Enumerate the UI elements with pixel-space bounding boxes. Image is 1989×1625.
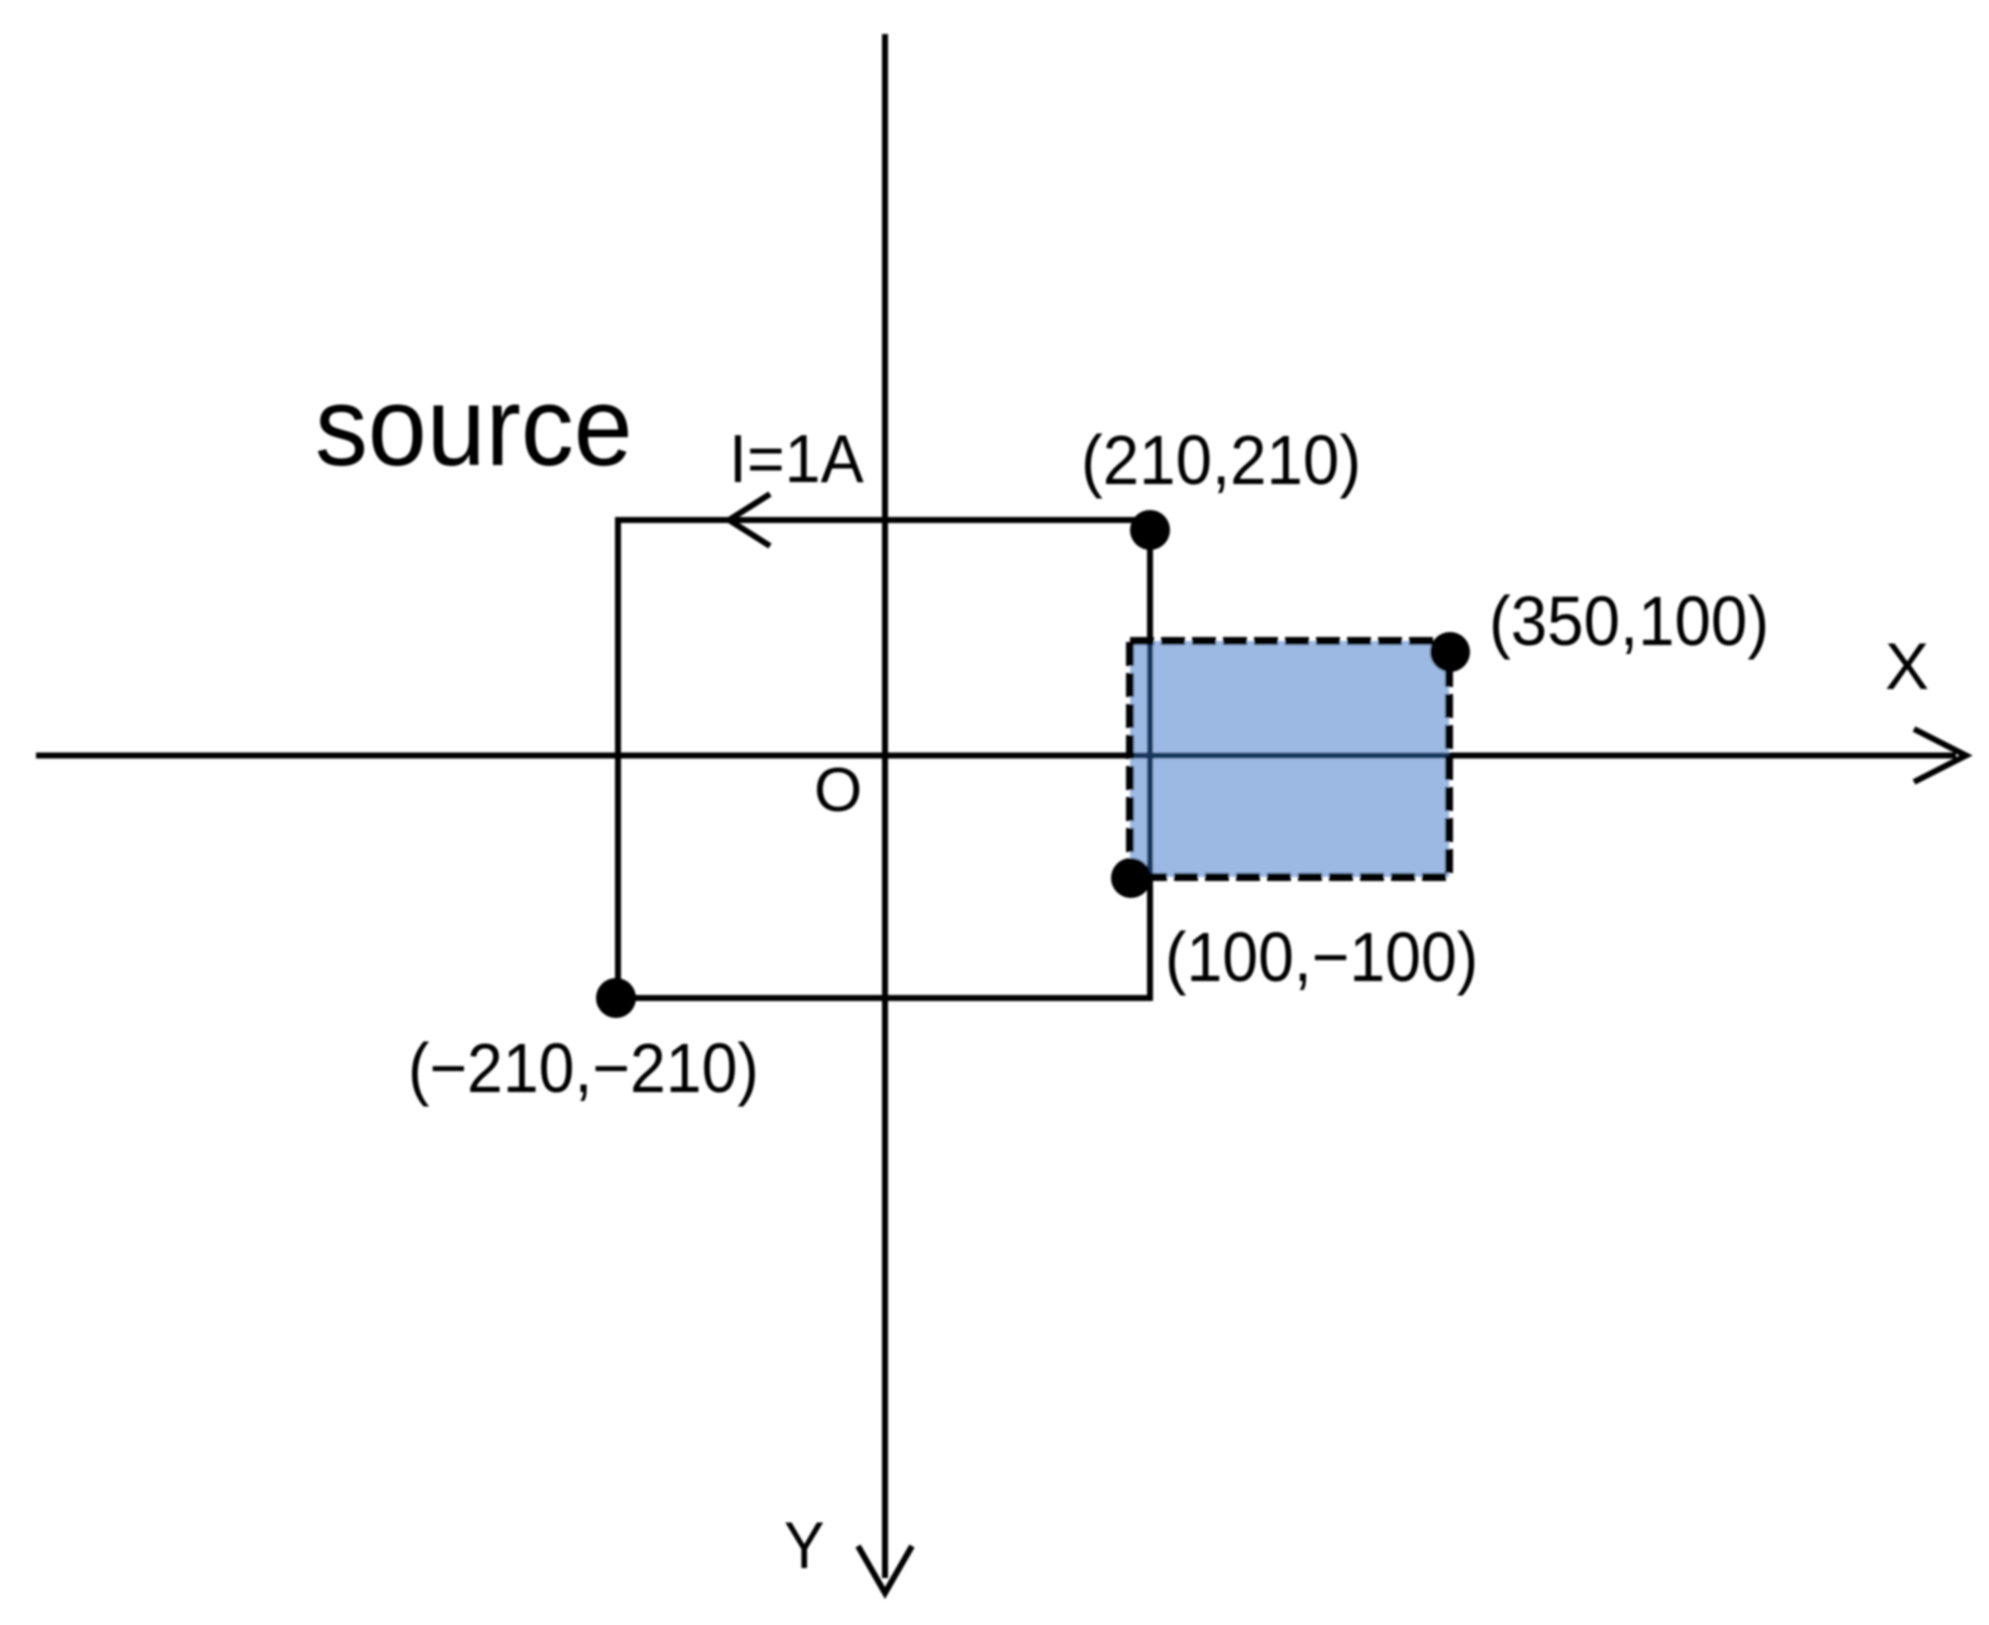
svg-text:I=1A: I=1A [729, 422, 864, 498]
loop right wire seen through blue fill (navy) [1147, 641, 1153, 877]
node dot (100,-100) [1111, 858, 1151, 898]
current direction arrow on top wire [729, 494, 770, 546]
x-axis arrowhead [1914, 729, 1966, 782]
svg-text:(350,100): (350,100) [1489, 583, 1769, 660]
x-axis [36, 753, 1956, 759]
x-axis seen through blue fill (navy) [1130, 753, 1449, 759]
node dot (350,100) [1430, 632, 1470, 672]
induced rectangle blue fill [1130, 641, 1449, 877]
svg-text:(210,210): (210,210) [1081, 422, 1361, 499]
node dot (-210,-210) [596, 978, 636, 1018]
svg-text:source: source [315, 364, 633, 489]
node dot (210,210) [1130, 510, 1170, 550]
y-axis arrowhead [858, 1546, 912, 1593]
source square current loop wire [618, 520, 1150, 998]
y-axis [882, 34, 888, 1578]
svg-text:(−210,−210): (−210,−210) [408, 1030, 759, 1108]
svg-text:O: O [814, 756, 862, 825]
induced rectangle dashed border [1130, 641, 1449, 877]
svg-text:X: X [1885, 629, 1929, 703]
svg-text:(100,−100): (100,−100) [1165, 919, 1478, 997]
svg-text:Y: Y [784, 1510, 824, 1583]
